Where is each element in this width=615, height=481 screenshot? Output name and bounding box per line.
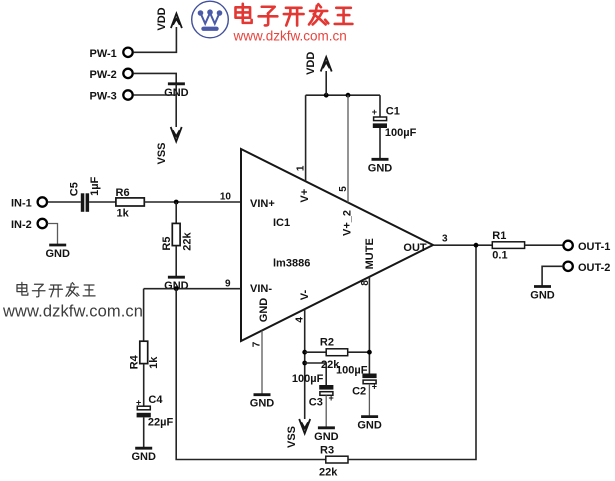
- wire VIN- to R4: [143, 289, 145, 342]
- node VIN- junction: [174, 286, 179, 291]
- ground (PW-2): [164, 84, 189, 99]
- wire PW-3 to VSS: [134, 84, 177, 127]
- pin 1 wire (V+): [305, 95, 307, 181]
- ground (C2): [357, 417, 382, 432]
- pin 4 wire (V-): [304, 309, 306, 419]
- terminal OUT-1: [563, 241, 610, 254]
- svg-text:R3: R3: [320, 445, 334, 457]
- op-amp IC1 lm3886: [241, 149, 433, 341]
- svg-text:C3: C3: [309, 397, 323, 409]
- svg-text:22µF: 22µF: [148, 416, 174, 428]
- svg-text:R1: R1: [492, 230, 506, 242]
- node C3-branch junction: [302, 361, 307, 366]
- svg-text:PW-3: PW-3: [90, 91, 117, 103]
- node pin5 junction: [346, 93, 351, 98]
- capacitor C2: [336, 365, 377, 398]
- ground (C4): [131, 448, 156, 463]
- wire C3 branch: [305, 363, 327, 385]
- svg-text:5: 5: [338, 186, 349, 192]
- wire rail to C1: [379, 95, 381, 117]
- svg-text:7: 7: [252, 341, 263, 347]
- svg-text:www.dzkfw.com.cn: www.dzkfw.com.cn: [2, 303, 143, 321]
- ground (C1): [368, 159, 393, 174]
- svg-text:1k: 1k: [148, 356, 160, 369]
- svg-text:8: 8: [360, 280, 371, 286]
- VDD rail wire: [306, 94, 380, 96]
- wire C4 to ground: [143, 417, 145, 448]
- svg-text:VSS: VSS: [156, 142, 168, 164]
- power flag VDD (IC): [305, 52, 332, 96]
- terminal PW-1: [90, 48, 133, 60]
- logo watermark circle W: [192, 1, 229, 38]
- ground (OUT-2): [530, 287, 555, 302]
- node R2-left junction: [302, 350, 307, 355]
- svg-text:C4: C4: [148, 394, 163, 406]
- svg-text:PW-1: PW-1: [90, 48, 117, 60]
- svg-text:R4: R4: [128, 354, 140, 369]
- feedback wire VIN- to R3: [176, 289, 326, 460]
- power flag VSS (left): [156, 127, 182, 165]
- terminal OUT-2: [563, 262, 610, 275]
- svg-text:100µF: 100µF: [292, 373, 324, 385]
- power flag VDD (left): [156, 7, 182, 30]
- svg-text:100µF: 100µF: [385, 127, 417, 139]
- svg-text:IN-1: IN-1: [11, 198, 32, 210]
- wire OUT-2 to ground: [542, 266, 563, 286]
- svg-text:OUT-1: OUT-1: [578, 241, 610, 253]
- node VIN+ junction: [174, 200, 179, 205]
- gray watermark (Chinese): [17, 282, 95, 297]
- svg-text:V+: V+: [299, 189, 311, 203]
- terminal PW-2: [90, 69, 133, 81]
- red site title (Chinese calligraphy): [236, 4, 353, 26]
- capacitor C1: [372, 106, 417, 140]
- svg-text:C5: C5: [69, 182, 81, 196]
- wire R5 to ground: [175, 246, 177, 277]
- ground (R5): [164, 277, 189, 292]
- svg-text:+: +: [329, 393, 334, 403]
- svg-text:V-: V-: [299, 289, 311, 300]
- svg-text:4: 4: [294, 317, 305, 323]
- svg-text:R6: R6: [116, 187, 130, 199]
- wire PW-1 to VDD: [134, 27, 177, 52]
- svg-text:V+_2: V+_2: [342, 210, 354, 236]
- resistor R2: [320, 336, 348, 371]
- wire C2 to ground: [368, 384, 370, 417]
- svg-text:C1: C1: [386, 106, 400, 118]
- capacitor C5: [69, 176, 101, 211]
- wire PW-2 to ground: [134, 73, 177, 83]
- svg-text:VSS: VSS: [286, 426, 298, 448]
- svg-text:+: +: [372, 381, 377, 391]
- svg-text:OUT: OUT: [403, 242, 427, 254]
- wire R6 to pin 10: [144, 201, 240, 203]
- svg-text:OUT-2: OUT-2: [578, 262, 610, 274]
- svg-text:VDD: VDD: [156, 7, 168, 30]
- node output junction: [474, 243, 479, 248]
- svg-text:C2: C2: [352, 385, 366, 397]
- svg-text:GND: GND: [258, 298, 270, 323]
- wire junction to R5: [175, 202, 177, 223]
- resistor R6: [116, 187, 145, 220]
- svg-text:PW-2: PW-2: [90, 69, 117, 81]
- svg-text:22k: 22k: [319, 467, 338, 479]
- resistor R5: [161, 223, 194, 250]
- svg-text:VIN+: VIN+: [250, 198, 275, 210]
- svg-text:IC1: IC1: [273, 217, 290, 229]
- pin 3 output wire: [433, 244, 492, 246]
- svg-text:1: 1: [296, 165, 307, 171]
- wire V- to R2: [305, 351, 327, 353]
- svg-text:3: 3: [442, 234, 448, 245]
- power flag VSS (IC): [286, 419, 310, 448]
- svg-text:+: +: [372, 107, 377, 117]
- wire R1 to OUT-1: [525, 244, 564, 246]
- ground (IN-2): [45, 245, 69, 260]
- svg-text:+: +: [136, 398, 141, 408]
- svg-text:VIN-: VIN-: [250, 283, 272, 295]
- svg-text:22k: 22k: [181, 232, 193, 251]
- capacitor C3: [292, 373, 334, 408]
- pin 9 wire (VIN-): [144, 288, 241, 290]
- pin 8 wire (MUTE): [368, 277, 370, 374]
- capacitor C4: [136, 394, 173, 428]
- node pin8-R2 junction: [367, 350, 372, 355]
- svg-text:1µF: 1µF: [89, 176, 101, 195]
- ground (pin 7): [250, 395, 275, 410]
- wire IN-1 to C5: [48, 201, 81, 203]
- svg-text:R2: R2: [320, 336, 334, 348]
- svg-text:lm3886: lm3886: [273, 258, 310, 270]
- terminal PW-3: [90, 90, 133, 102]
- svg-text:0.1: 0.1: [492, 249, 507, 261]
- svg-text:MUTE: MUTE: [364, 238, 376, 269]
- ground (C3): [314, 428, 339, 443]
- resistor R3: [319, 445, 348, 479]
- wire C1 to ground: [379, 128, 381, 159]
- terminal IN-2: [11, 219, 47, 231]
- wire R2 to pin8 node: [348, 351, 370, 353]
- svg-text:IN-2: IN-2: [11, 219, 32, 231]
- svg-text:www.dzkfw.com.cn: www.dzkfw.com.cn: [233, 28, 347, 43]
- resistor R1: [492, 230, 524, 261]
- svg-text:10: 10: [220, 192, 232, 203]
- svg-text:9: 9: [225, 278, 231, 289]
- wire IN-2 to ground: [48, 224, 58, 245]
- wire R4 to C4: [143, 364, 145, 406]
- pin 5 wire (V+_2): [347, 95, 349, 202]
- node VDD-arrow junction: [324, 93, 329, 98]
- svg-text:R5: R5: [161, 237, 173, 251]
- svg-text:VDD: VDD: [305, 52, 317, 75]
- svg-text:100µF: 100µF: [336, 365, 368, 377]
- terminal IN-1: [11, 197, 47, 209]
- wire R3 to output node: [348, 245, 476, 459]
- pin 7 wire (GND): [261, 331, 263, 395]
- wire C5 to R6: [89, 201, 116, 203]
- wire C3 to ground: [325, 395, 327, 427]
- svg-text:1k: 1k: [117, 208, 130, 220]
- resistor R4: [128, 341, 159, 369]
